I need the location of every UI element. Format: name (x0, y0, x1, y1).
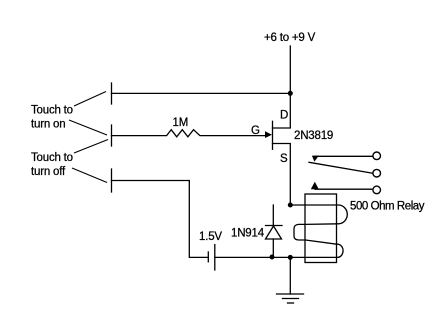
svg-text:500 Ohm Relay: 500 Ohm Relay (350, 201, 425, 213)
svg-text:turn on: turn on (31, 119, 65, 131)
svg-text:1.5V: 1.5V (199, 231, 222, 243)
svg-text:Touch to: Touch to (31, 105, 73, 117)
svg-text:2N3819: 2N3819 (294, 130, 333, 142)
svg-text:Touch to: Touch to (31, 152, 73, 164)
svg-text:D: D (280, 110, 288, 122)
svg-text:1M: 1M (173, 117, 189, 129)
svg-text:G: G (251, 125, 260, 137)
svg-text:S: S (280, 153, 288, 165)
svg-text:1N914: 1N914 (231, 228, 265, 240)
svg-text:turn off: turn off (31, 166, 66, 178)
svg-text:+6 to +9 V: +6 to +9 V (264, 32, 316, 44)
